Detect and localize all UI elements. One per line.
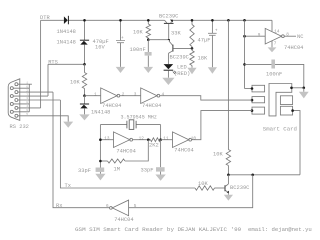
wire to gate D input <box>161 139 173 141</box>
svg-text:33pF: 33pF <box>78 168 91 174</box>
wire DB9 pin4 row to DTR rail <box>18 107 41 109</box>
svg-text:1N4148: 1N4148 <box>57 40 76 46</box>
resistor R8 10K Tx series <box>195 186 215 190</box>
ground G2 under C2 <box>144 67 154 73</box>
svg-text:7: 7 <box>274 42 277 47</box>
junction dot rail x=148.3 <box>147 19 150 22</box>
inverter gate U1C 74HC04 <box>114 132 130 148</box>
wire long vertical x=228.4 rail to I/O net <box>227 20 229 175</box>
svg-text:18K: 18K <box>198 56 208 62</box>
smart card pad L1 <box>252 85 265 92</box>
svg-text:4: 4 <box>26 105 28 108</box>
wire pad R2 to I/O net <box>293 111 300 175</box>
wire node 148.3 down to C2 <box>147 40 149 67</box>
inverter gate U1F 74HC04 (unused, input high) <box>265 28 281 44</box>
wire GND pad to ground stem <box>292 87 304 89</box>
wire LED cathode to ground <box>167 71 169 78</box>
svg-text:(RED): (RED) <box>174 71 190 77</box>
ground G3 under R4 <box>187 68 196 74</box>
diode D1 1N4148 series in DTR line <box>64 16 68 24</box>
svg-text:33pF: 33pF <box>141 168 154 174</box>
wire crystal right node down to C6 <box>160 140 162 168</box>
wire DB9 pin7 row to RTS rail <box>13 95 48 97</box>
inverter gate U1B 74HC04 <box>141 88 157 104</box>
ground G7 card GND <box>299 92 309 99</box>
svg-text:BC239C: BC239C <box>230 185 249 191</box>
svg-text:33K: 33K <box>171 31 181 37</box>
svg-text:5: 5 <box>134 204 137 209</box>
svg-text:1: 1 <box>26 81 28 84</box>
wire crystal right down to gate C output node <box>160 125 162 140</box>
ground G12 under D3 <box>79 114 89 120</box>
svg-text:9: 9 <box>26 109 28 112</box>
wire VCC rail x=244.5 down to card <box>244 20 246 88</box>
ground G6 under gate F <box>268 47 277 52</box>
ground G8 under C5 <box>95 174 105 181</box>
junction dot 1M left node <box>99 160 102 163</box>
wire I/O down to Rx gate input <box>129 175 253 208</box>
wire DB9 pin6 stub <box>13 87 29 89</box>
wire DB9 bus vertical <box>28 84 30 112</box>
svg-text:10K: 10K <box>198 181 208 187</box>
svg-text:6: 6 <box>26 85 28 88</box>
svg-text:74HC04: 74HC04 <box>114 217 133 223</box>
svg-text:1N4148: 1N4148 <box>91 110 110 116</box>
LED (RED) <box>164 64 174 69</box>
wire C6 to ground <box>160 172 162 175</box>
svg-text:74HC04: 74HC04 <box>142 103 161 109</box>
svg-text:3: 3 <box>134 92 137 97</box>
svg-text:2K2: 2K2 <box>149 143 159 149</box>
smart card pad R2 <box>280 106 292 115</box>
junction dot rail x=120.5 <box>119 19 122 22</box>
junction dot GND pad <box>290 87 293 90</box>
wire DTR vertical from DB9 pin 4 <box>40 20 42 108</box>
DB9 pin 8 <box>10 102 13 105</box>
wire DB9 pin1 stub <box>18 83 32 85</box>
junction dot crystal right node <box>159 138 162 141</box>
DB9 connector shell <box>8 79 20 121</box>
svg-text:+: + <box>215 29 218 34</box>
junction dot x=244.5 y=36.2 <box>243 35 246 38</box>
wire gate B out to card CLK pad L2 <box>160 96 252 100</box>
svg-text:74HC04: 74HC04 <box>174 148 193 154</box>
wire gate C output <box>133 139 151 141</box>
wire top supply rail <box>41 19 272 21</box>
wire R8 to Q3 base <box>215 187 225 189</box>
DB9 pin 2 <box>15 91 18 94</box>
junction dot ground stem top <box>303 87 306 90</box>
wire gate A input from node 84.5 <box>85 95 101 97</box>
svg-text:100nF: 100nF <box>266 71 282 77</box>
DB9 pin 6 <box>10 87 13 90</box>
svg-text:13: 13 <box>104 136 110 141</box>
svg-text:3.579545 MHz: 3.579545 MHz <box>121 115 157 121</box>
wire RTS vertical from DB9 pin 7 <box>47 64 49 96</box>
junction dot rail x=192 <box>191 19 194 22</box>
junction dot I/O x=228.4 <box>227 174 230 177</box>
wire gate F input from VCC rail x=244.5 <box>245 35 266 37</box>
junction dot RTS x=84.5 <box>83 63 86 66</box>
svg-text:BC239C: BC239C <box>170 55 189 61</box>
inverter gate U1A 74HC04 <box>101 88 117 104</box>
DB9 pin 7 <box>10 95 13 98</box>
wire DB9 pin8 stub <box>13 103 29 105</box>
junction dot rail x=212.4 <box>211 19 214 22</box>
junction dot gate A input node <box>83 94 86 97</box>
svg-text:4: 4 <box>162 92 165 97</box>
svg-text:2: 2 <box>26 89 28 92</box>
svg-text:10K: 10K <box>70 79 80 85</box>
junction dot rail x=228.4 <box>227 19 230 22</box>
DB9 pin 9 <box>10 110 13 113</box>
wire crystal left down to gate C input node <box>99 125 101 168</box>
diode D3 1N4148 to ground <box>80 103 89 105</box>
svg-text:2: 2 <box>122 92 125 97</box>
svg-text:Smart Card: Smart Card <box>263 126 297 133</box>
junction dot I/O x=252.7 <box>251 174 254 177</box>
wire I/O net horizontal y=174.8 <box>228 174 300 176</box>
junction dot pad L3 <box>251 109 254 112</box>
DB9 pin 4 <box>15 106 18 109</box>
resistor R2 10K RTS at x=84.5 <box>84 64 86 95</box>
svg-text:+: + <box>121 36 124 41</box>
svg-text:100nF: 100nF <box>130 47 146 53</box>
DB9 pin 5 <box>15 114 18 117</box>
svg-text:74HC04: 74HC04 <box>284 45 303 51</box>
resistor R6 1M <box>108 159 126 163</box>
wire gate A out to gate B in <box>120 95 141 97</box>
smart card pad L2 <box>252 97 265 103</box>
svg-text:1N4148: 1N4148 <box>57 29 76 35</box>
svg-text:47µF: 47µF <box>198 38 211 44</box>
junction dot node x=148.3 y=39.7 <box>147 38 150 41</box>
resistor R3 33K from rail to Q2 base <box>191 20 193 48</box>
svg-text:7: 7 <box>26 93 28 96</box>
junction dot rail x=244.5 <box>243 19 246 22</box>
svg-text:10: 10 <box>191 136 197 141</box>
capacitor C1 470uF/16V at x=120.5 <box>120 20 122 67</box>
svg-text:5: 5 <box>26 113 28 116</box>
wire 100nF branch y=64.4 to right then down <box>245 64 304 87</box>
svg-text:10K: 10K <box>133 29 143 35</box>
svg-text:3: 3 <box>26 97 28 100</box>
junction dot pad L1 <box>251 87 254 90</box>
smart card middle GND pad <box>269 84 292 116</box>
diode D2 1N4148 vertical, cathode up <box>80 39 89 41</box>
transistor Q2 BC239C vertical <box>168 39 170 41</box>
DB9 pin 3 <box>15 99 18 102</box>
svg-text:NC: NC <box>297 34 303 40</box>
svg-text:11: 11 <box>163 136 169 141</box>
ground G4 under C3 <box>208 67 217 73</box>
resistor R1 10K at x=148.3 <box>147 20 149 39</box>
svg-text:LED: LED <box>177 65 187 71</box>
resistor R7 10K pullup in x=228.4 <box>226 150 230 166</box>
svg-text:9: 9 <box>258 33 261 38</box>
svg-text:GSM SIM Smart Card Reader by D: GSM SIM Smart Card Reader by DEJAN KALJE… <box>75 226 242 233</box>
svg-text:74HC04: 74HC04 <box>102 103 121 109</box>
svg-text:10K: 10K <box>213 151 223 157</box>
wire DB9 pin9 stub <box>13 111 29 113</box>
wire gate D output up to card pad L3 <box>192 111 252 140</box>
capacitor C4 100nF gray box on wire <box>271 60 275 69</box>
wire DB9 pin5 row GND <box>18 116 68 122</box>
junction dot pad L2 <box>251 99 254 102</box>
wire RTS horizontal to node 84.5 <box>48 63 85 65</box>
transistor Q1 BC239C on rail <box>165 20 167 23</box>
wire ground stem <box>303 88 305 92</box>
wire node y=39.7 from 148.3 to Q2 emitter <box>148 39 168 41</box>
capacitor C6 33pF gray box right <box>156 167 165 171</box>
wire rail corner down to gate F power pin 14 <box>271 20 273 31</box>
junction dot x=244.5 y=64.4 <box>243 63 246 66</box>
junction dot rail x=84.5 <box>83 19 86 22</box>
svg-text:RS 232: RS 232 <box>10 124 29 130</box>
capacitor C5 33pF gray box left <box>96 168 105 172</box>
wire gate C input <box>100 139 113 141</box>
svg-text:14: 14 <box>274 30 280 35</box>
wire gate C feedback node down, 1M row <box>125 140 148 161</box>
ground G11 DB9 GND <box>63 122 73 128</box>
wire vertical node x=84.5 from rail to RTS junction <box>84 20 86 64</box>
junction dot gate C output node <box>147 138 150 141</box>
ground G9 under C6 <box>155 175 165 181</box>
DB9 pin 1 <box>15 83 18 86</box>
svg-text:8: 8 <box>26 101 28 104</box>
capacitor C2 100nF gray box <box>145 52 152 56</box>
svg-text:12: 12 <box>139 136 145 141</box>
wire gate F ground stem <box>271 41 273 48</box>
smart card pad R1 <box>280 96 292 105</box>
smart card pad L3 <box>252 107 265 114</box>
svg-text:74HC04: 74HC04 <box>116 149 135 155</box>
svg-text:8: 8 <box>286 32 289 37</box>
inverter gate U1D 74HC04 <box>173 132 189 148</box>
wire gate F output <box>284 35 296 37</box>
svg-text:email: dejan@net.yu: email: dejan@net.yu <box>248 226 312 233</box>
svg-text:1M: 1M <box>114 167 120 173</box>
junction dot gate C input <box>99 138 102 141</box>
crystal X1 <box>100 124 160 126</box>
inverter gate U1E 74HC04 pointing left <box>112 200 128 216</box>
capacitor C3 47uF at x=212.4 <box>211 20 213 67</box>
svg-text:BC239C: BC239C <box>159 14 178 20</box>
resistor R4 18K base to ground <box>191 48 193 67</box>
ground G10 under Q3 emitter <box>224 195 233 201</box>
junction dot Q2 base node <box>191 47 194 50</box>
wire DB9 pin3 row to Tx rail <box>18 99 61 101</box>
transistor Q3 BC239C <box>224 185 226 191</box>
wire card VCC pad row <box>245 88 253 90</box>
ground G1 under C1 <box>116 67 126 73</box>
ground G5 under LED <box>162 78 174 85</box>
wire Tx rail from DB9 pin 3 down and right <box>60 100 195 188</box>
svg-text:6: 6 <box>106 204 109 209</box>
wire C5 to ground <box>99 172 101 174</box>
wire Q2 collector down to LED <box>167 53 169 64</box>
junction dot pad R2 <box>291 109 294 112</box>
wire Rx rail from DB9 pin 2 down <box>53 92 110 208</box>
resistor R5 2K2 <box>150 138 160 142</box>
wire DB9 pin2 row to Rx rail <box>18 91 53 93</box>
svg-text:16V: 16V <box>95 45 105 51</box>
svg-text:1: 1 <box>94 92 97 97</box>
wire node 84.5 down to D3 <box>84 96 86 104</box>
